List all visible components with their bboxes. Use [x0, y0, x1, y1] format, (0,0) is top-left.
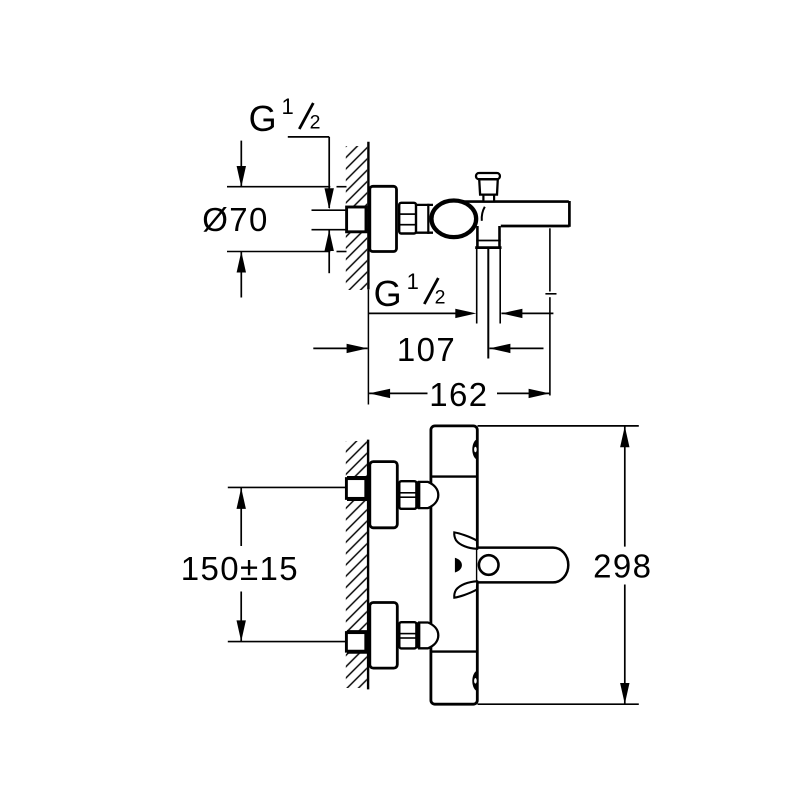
- svg-text:150±15: 150±15: [181, 550, 299, 587]
- svg-text:G: G: [374, 273, 402, 314]
- svg-text:1: 1: [281, 94, 293, 119]
- svg-text:162: 162: [429, 376, 488, 413]
- svg-text:Ø70: Ø70: [202, 201, 269, 238]
- svg-text:G: G: [249, 98, 277, 139]
- svg-text:298: 298: [593, 548, 652, 585]
- svg-text:2: 2: [310, 112, 321, 134]
- svg-text:1: 1: [407, 269, 419, 294]
- svg-text:107: 107: [397, 331, 456, 368]
- svg-text:2: 2: [435, 287, 446, 309]
